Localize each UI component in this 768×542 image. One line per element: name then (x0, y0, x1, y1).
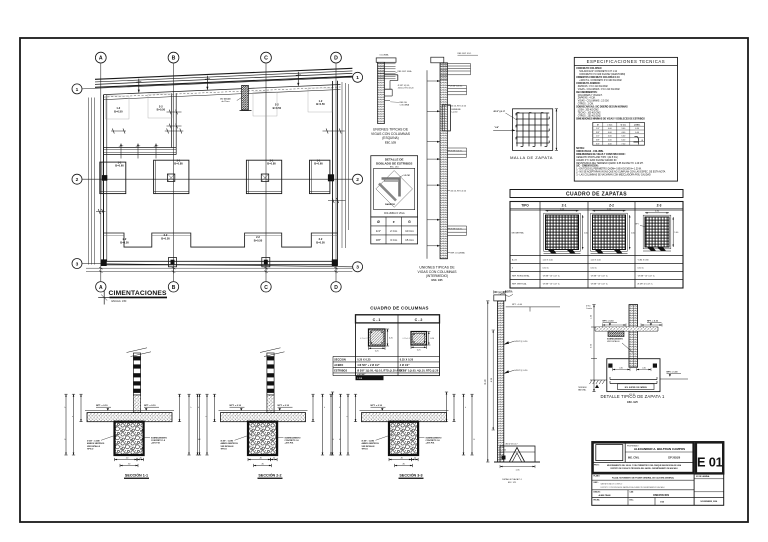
svg-text:VER DETALLE: VER DETALLE (362, 445, 376, 448)
interior L wall horizontal segment (104, 147, 177, 149)
svg-text:DIAMETRO: DIAMETRO (385, 203, 396, 206)
grid bubble C top (261, 52, 272, 63)
svg-text:A x B: A x B (512, 259, 517, 262)
dimension ticks mid bay B (165, 130, 184, 132)
tall column leader 2 (504, 370, 515, 374)
svg-text:5/8": 5/8" (596, 140, 600, 142)
svg-text:1.00 X 1.00: 1.00 X 1.00 (591, 260, 602, 262)
footing box anchors (608, 364, 612, 368)
tall column detail top cap (494, 295, 506, 301)
svg-text:PLAZA: MOVIMIENTO DE PODER GEN: PLAZA: MOVIMIENTO DE PODER GENERAL DE CU… (612, 476, 675, 479)
svg-text:1/4": 1/4" (376, 229, 381, 233)
svg-text:"L/8": "L/8" (494, 127, 499, 129)
svg-text:A.BELTRAN: A.BELTRAN (599, 494, 611, 497)
svg-text:SANTA ROSA DE COISHCO: SANTA ROSA DE COISHCO (601, 483, 623, 486)
beam direction arrows on roof band (138, 79, 140, 93)
tall column base line (494, 461, 540, 463)
svg-text:"Ø 3/8" "@" 0.17 m.: "Ø 3/8" "@" 0.17 m. (591, 276, 609, 278)
svg-text:UBIC.:: UBIC.: (594, 482, 600, 484)
grid row 2 line (82, 178, 352, 180)
tall column footing (500, 446, 535, 462)
svg-text:0.45: 0.45 (619, 367, 623, 369)
column C-2 section (411, 332, 427, 346)
column shaft of SECCIÓN 2-2 (267, 353, 274, 395)
svg-text:AMBOS SENTIDOS: AMBOS SENTIDOS (87, 442, 105, 445)
intermediate joint right leader notes (448, 85, 451, 87)
svg-text:NPT. + 6.00: NPT. + 6.00 (512, 304, 522, 306)
svg-text:UNION VIGAS - COLUMN.: UNION VIGAS - COLUMN. (576, 150, 604, 153)
svg-text:DIMENSIONES DE VIGAS Y CON: DIMENSIONES DE VIGAS Y CONSTRUCCION : (576, 153, 626, 156)
svg-text:3 Cm: 3 Cm (390, 238, 398, 242)
svg-text:VIGAS - COLUMNAS: VIGAS - COLUMNAS : 2.5 CM. (578, 100, 610, 103)
svg-text:B=0.50: B=0.50 (316, 240, 325, 244)
intermediate joint top beam (448, 63, 471, 65)
svg-text:DIBUJO:: DIBUJO: (594, 491, 601, 493)
svg-text:0.45: 0.45 (642, 367, 646, 369)
footing mesh right dimension (555, 109, 557, 151)
svg-text:"Ø 3/8" "@" 0.17 m.: "Ø 3/8" "@" 0.17 m. (543, 284, 561, 286)
svg-text:2.- NO SE ACEPTARAN VIGAS QUE: 2.- NO SE ACEPTARAN VIGAS QUE NO CUMPLAN… (576, 171, 666, 174)
svg-text:DOBLADO DE ESTRIBOS: DOBLADO DE ESTRIBOS (376, 161, 412, 165)
svg-text:Cuadro: Cuadro (586, 308, 592, 310)
svg-text:FECHA:: FECHA: (594, 498, 601, 501)
svg-text:e: e (347, 416, 348, 418)
svg-text:+25% P.M.: +25% P.M. (285, 443, 295, 445)
svg-text:.40: .40 (126, 457, 129, 459)
svg-text:e: e (206, 416, 207, 418)
svg-text:h: h (198, 407, 199, 409)
svg-text:TIPICO: TIPICO (87, 449, 94, 451)
svg-text:10 Cm: 10 Cm (405, 229, 414, 233)
zapata detail left dimension (593, 305, 595, 392)
svg-text:.80: .80 (402, 463, 405, 465)
svg-text:.40: .40 (273, 457, 276, 459)
svg-text:SOBRECIMIENTO: SOBRECIMIENTO (151, 437, 167, 439)
svg-text:MEJORAMIENTO DEL SS.HH. Y DEL: MEJORAMIENTO DEL SS.HH. Y DEL PERIMETRIC… (607, 464, 682, 467)
svg-text:3/8": 3/8" (376, 238, 381, 242)
svg-text:CUADRO DE COLUMNAS: CUADRO DE COLUMNAS (370, 305, 429, 310)
top footing outline B1 (148, 94, 172, 118)
svg-text:0.50 m.: 0.50 m. (543, 268, 550, 270)
top footing outline D1 (308, 88, 332, 112)
north cross mark (103, 291, 105, 305)
svg-text:ZAPATAS :: ZAPATAS : F'C= 210 KG/CM2 (578, 85, 609, 88)
svg-text:CEMENTO PORTLAND TIPO I (42.5: CEMENTO PORTLAND TIPO I (42.5 KG) (576, 156, 618, 159)
svg-text:2-2: 2-2 (256, 235, 260, 239)
stirrup bending detail box (371, 156, 418, 217)
svg-text:h: h (324, 407, 325, 409)
svg-text:0.25: 0.25 (389, 338, 393, 340)
svg-text:C: C (264, 285, 268, 291)
grid bubble D top (331, 52, 342, 63)
left wall double line (103, 95, 105, 266)
pedestal of SECCIÓN 1-1 (115, 422, 144, 455)
zapata detail footing box (607, 359, 660, 392)
hook sketch in table (634, 136, 639, 144)
floor line of SECCIÓN 2-2 (219, 410, 308, 412)
ticks on interior wall vertical (167, 111, 182, 113)
svg-text:Ø 3/8" 1@.05,: Ø 3/8" 1@.05, (450, 228, 462, 230)
svg-text:Z-3: Z-3 (657, 203, 662, 207)
svg-text:1 1/2: 1 1/2 (357, 378, 363, 380)
svg-text:15 Cm: 15 Cm (405, 238, 414, 242)
svg-text:3: 3 (356, 265, 359, 271)
lamina column (693, 474, 695, 505)
bottom dimension line 2 (86, 271, 352, 273)
svg-text:C: C (264, 56, 268, 62)
grid bubble 1 left (72, 84, 82, 94)
footing Z-1 at B2 (154, 160, 189, 193)
svg-text:NPT. = 0.10: NPT. = 0.10 (144, 405, 156, 407)
foundation plan grid line D (335, 63, 337, 281)
svg-text:(ESQUINA): (ESQUINA) (382, 136, 398, 140)
svg-text:0.20: 0.20 (430, 338, 434, 340)
svg-text:CUADRO DE ZAPATAS: CUADRO DE ZAPATAS (566, 192, 627, 198)
bottom wall double line (104, 260, 338, 262)
svg-text:ING. CIVIL: ING. CIVIL (628, 458, 640, 460)
svg-text:.40: .40 (400, 457, 403, 459)
stepped strip footing outline (104, 233, 338, 247)
svg-text:COLUMNAS Y VIGAS P.: COLUMNAS Y VIGAS P. (578, 94, 603, 97)
sheet code box E 01 (696, 442, 723, 473)
svg-text:OTROS: OTROS : 250 KG/CM2 (578, 115, 602, 117)
svg-text:Ø 3/8" : 0.20M: Ø 3/8" : 0.20M (362, 441, 375, 443)
left dimension lines of SECCIÓN 1-1 (65, 394, 67, 455)
grid bubble C bottom (261, 282, 271, 292)
svg-text:CIMENTACIONES: CIMENTACIONES (109, 290, 168, 297)
column schedule data rows (333, 355, 440, 357)
svg-text:CONCRETO 1:8: CONCRETO 1:8 (151, 440, 165, 442)
svg-text:D: D (334, 56, 338, 62)
svg-text:Ø 3/8" : 0.20M: Ø 3/8" : 0.20M (87, 441, 100, 443)
left dimension lines of SECCIÓN 3-3 (340, 394, 342, 455)
title block top band (thick) (593, 442, 694, 473)
foundation plan grid line C (265, 63, 267, 281)
svg-text:DISTRITO Y PROVINCIA DE SANTA: DISTRITO Y PROVINCIA DE SANTA ROSA CHIMB… (601, 486, 666, 489)
footing mesh detail frame (513, 109, 553, 151)
top wall edge lines (104, 84, 341, 94)
tall column inner dimension (492, 330, 494, 430)
intermediate joint right beam stubs (448, 85, 467, 87)
bottom dimensions of SECCIÓN 3-3 (389, 459, 412, 461)
svg-text:ESC. 1/25: ESC. 1/25 (385, 141, 397, 144)
svg-text:1/4": 1/4" (596, 128, 600, 130)
svg-text:0.25: 0.25 (417, 349, 421, 351)
right dimension lines of SECCIÓN 1-1 (179, 394, 181, 422)
svg-text:ACERO F'Y= 4200 KG/CM2 GRADO 6: ACERO F'Y= 4200 KG/CM2 GRADO 60 (576, 159, 617, 162)
svg-text:GEOMETRIA: GEOMETRIA (512, 232, 525, 235)
svg-text:2 Cm: 2 Cm (390, 229, 398, 233)
svg-text:"Ø 3/8" "@" 0.17 m.: "Ø 3/8" "@" 0.17 m. (591, 284, 609, 286)
svg-text:4@.10, RTO.@.20: 4@.10, RTO.@.20 (398, 88, 414, 90)
svg-text:PROY.:: PROY.: (594, 464, 600, 466)
svg-text:NPT. = 0.10: NPT. = 0.10 (371, 405, 383, 407)
footing Z-1 at D2 (310, 160, 330, 193)
svg-text:CONCRETO ARMADO:: CONCRETO ARMADO: (576, 82, 600, 85)
bottom dimension line 1 (86, 267, 352, 269)
title block outer frame (592, 442, 724, 506)
ticks on interior wall (120, 144, 122, 159)
right dimension lines of SECCIÓN 3-3 (453, 394, 455, 422)
footing Z-1 at C2 (246, 160, 281, 193)
stirrup bending inner frame (374, 168, 415, 209)
svg-text:Z-1: Z-1 (562, 203, 567, 207)
intermediate joint column (431, 57, 444, 63)
grid row 1 line (sloped) (82, 77, 352, 89)
intermediate joint left beam ticks (427, 80, 440, 82)
svg-text:C - 2: C - 2 (415, 318, 423, 322)
column C-1 section (369, 329, 386, 346)
svg-text:0.25 X 0.25: 0.25 X 0.25 (357, 358, 371, 361)
svg-text:VER DETALLE: VER DETALLE (87, 445, 101, 448)
svg-text:AMBOS SENTIDOS: AMBOS SENTIDOS (362, 442, 380, 445)
svg-text:CONCRETO 1:8: CONCRETO 1:8 (426, 440, 440, 442)
svg-text:NOTAS:: NOTAS: (576, 147, 585, 150)
svg-text:DETALLE PLACA P-1: DETALLE PLACA P-1 (502, 478, 522, 481)
svg-text:ESC.:: ESC.: (630, 499, 635, 501)
svg-text:REF. SUP. VIGA: REF. SUP. VIGA (398, 70, 413, 73)
svg-text:ESPECIFICACIONES TECNICAS: ESPECIFICACIONES TECNICAS (587, 59, 666, 64)
column schedule table (356, 315, 440, 376)
svg-text:C - 1: C - 1 (373, 318, 381, 322)
svg-text:SECCIÓN 2-2: SECCIÓN 2-2 (258, 472, 281, 477)
grid bubble B top (168, 52, 179, 63)
pedestal of SECCIÓN 2-2 (248, 422, 277, 455)
zapata detail column (629, 305, 638, 368)
svg-text:B=0.60: B=0.60 (115, 164, 124, 168)
svg-text:CIMENTACION: CIMENTACION (653, 494, 669, 497)
svg-text:ESC. 1/25: ESC. 1/25 (508, 482, 516, 484)
svg-text:4@.10, RTO.@.20: 4@.10, RTO.@.20 (450, 105, 466, 107)
interior L wall vertical segment (171, 93, 173, 147)
svg-text:e Cm: e Cm (607, 124, 612, 126)
svg-text:REF. SUP. V.S.1: REF. SUP. V.S.1 (458, 53, 472, 55)
svg-text:h: h (191, 407, 192, 409)
tall column shaft (498, 301, 504, 462)
svg-text:*0.80 X 0.80: *0.80 X 0.80 (638, 260, 650, 262)
grid bubble 2 left (72, 174, 82, 184)
grid bubble A top (95, 52, 106, 63)
grid bubble 3 right (353, 262, 363, 272)
svg-text:AMBOS SENTIDOS: AMBOS SENTIDOS (221, 442, 239, 445)
svg-text:RESISTENCIA DEL TERRENO QADM=: RESISTENCIA DEL TERRENO QADM= 0.85 KG/CM… (576, 162, 644, 165)
svg-text:SOBRECIMIENTO: SOBRECIMIENTO (426, 437, 442, 439)
zapata detail slab (595, 326, 658, 328)
column below stripes SECCIÓN 2-2 (267, 395, 274, 413)
grid bubble 3 left (72, 259, 82, 269)
svg-text:3/4": 3/4" (596, 143, 600, 145)
ground hatch left (590, 380, 593, 384)
svg-text:NPT.: NPT. (635, 224, 639, 226)
svg-text:TIPICO: TIPICO (221, 449, 228, 451)
svg-text:RECUBRIMIENTOS:: RECUBRIMIENTOS: (576, 92, 597, 94)
svg-text:NIV. SUPER. DE ZAPATA: NIV. SUPER. DE ZAPATA (625, 386, 648, 389)
svg-text:VIGAS - COLUMNAS : F'C= 210: VIGAS - COLUMNAS : F'C= 210 KG/CM2 (578, 88, 621, 91)
footing mesh bars (516, 113, 518, 147)
svg-text:SECCIÓN 3-3: SECCIÓN 3-3 (399, 472, 422, 477)
svg-text:+25% P.M.: +25% P.M. (151, 443, 161, 445)
svg-text:COLUMNA O VIGA: COLUMNA O VIGA (384, 212, 405, 215)
svg-text:B=0.80: B=0.80 (174, 162, 183, 166)
svg-text:NATURAL: NATURAL (578, 389, 586, 392)
svg-text:e: e (393, 220, 395, 224)
slab of SECCIÓN 3-3 (362, 413, 447, 422)
stirrup diamond (376, 171, 413, 208)
title block row 3 (592, 473, 724, 475)
svg-text:CONCRETO F'C=100 KG/CM2 (CEM-H: CONCRETO F'C=100 KG/CM2 (CEM-HORM) (579, 74, 625, 76)
svg-text:B=0.50: B=0.50 (316, 102, 325, 106)
svg-text:.40: .40 (259, 457, 262, 459)
dimension ticks mid bay AB (111, 130, 126, 132)
svg-text:+25% P.M.: +25% P.M. (426, 443, 436, 445)
grid bubble D bottom (331, 282, 341, 292)
svg-text:h: h (339, 407, 340, 409)
svg-text:B=0.50: B=0.50 (157, 108, 166, 112)
top footing outline A1 (106, 96, 129, 119)
svg-text:1.- EN TODO EL PERIMETRO QADM: 1.- EN TODO EL PERIMETRO QADM= 0.85 KG/C… (576, 168, 642, 171)
svg-text:Ø: Ø (377, 220, 380, 224)
svg-text:NPT. = 0.10: NPT. = 0.10 (278, 405, 290, 407)
svg-text:ZAPATAS: ZAPATAS : 4 CM. (578, 97, 596, 100)
svg-text:(INTERMEDIO): (INTERMEDIO) (426, 274, 448, 278)
footing box bars (610, 379, 657, 381)
svg-text:Ø 3/8" 1@.05,: Ø 3/8" 1@.05, (450, 150, 462, 152)
pedestal of SECCIÓN 3-3 (389, 422, 418, 455)
wall break tick left wall (96, 211, 106, 213)
svg-text:.40: .40 (414, 457, 417, 459)
svg-text:ACERO: ACERO (334, 364, 343, 367)
svg-text:0.25: 0.25 (375, 350, 379, 352)
svg-text:B: B (172, 56, 176, 62)
svg-text:TIPO: TIPO (521, 203, 529, 207)
floor line of SECCIÓN 3-3 (360, 410, 449, 412)
zapata Z-1 drawing (546, 215, 579, 250)
footing rebar peak (510, 448, 525, 462)
svg-text:LONG.: LONG. (634, 124, 641, 126)
svg-text:.40: .40 (139, 457, 142, 459)
svg-text:e: e (72, 416, 73, 418)
svg-text:Ø 3/8" 1@.05, 4@.10, RTO.@.20: Ø 3/8" 1@.05, 4@.10, RTO.@.20 A/EXT. (357, 369, 404, 372)
svg-text:2-2: 2-2 (159, 104, 163, 108)
specifications inner table (593, 122, 645, 145)
grid bubble 2 right (353, 174, 363, 184)
svg-text:NPT. = 0.10: NPT. = 0.10 (603, 321, 615, 323)
footing schedule title bar (510, 190, 683, 198)
svg-text:3.- LAS COLUMNAS SE VACIARAN C: 3.- LAS COLUMNAS SE VACIARAN CON MEZCLAD… (576, 174, 651, 177)
svg-text:B=0.50: B=0.50 (161, 236, 170, 240)
corner joint beam (385, 74, 398, 76)
svg-text:2-2: 2-2 (275, 103, 279, 107)
svg-text:4 Ø 1/2": 4 Ø 1/2" (400, 364, 410, 367)
svg-text:NPT. = 0.10: NPT. = 0.10 (96, 405, 108, 407)
svg-text:.80: .80 (128, 463, 131, 465)
svg-text:1-2: 1-2 (319, 99, 323, 103)
svg-text:SOBRECARGAS: S/C DISEÑO SEG: SOBRECARGAS: S/C DISEÑO SEGUN NORMAS (576, 106, 628, 109)
svg-text:SOBRECIMIENTO: SOBRECIMIENTO (285, 437, 301, 439)
svg-text:1.00 X 1.00: 1.00 X 1.00 (543, 260, 554, 262)
svg-text:h: h (465, 407, 466, 409)
svg-text:LOSA: LOSA : 200 KG/CM2 (578, 109, 600, 112)
svg-text:1: 1 (356, 75, 359, 81)
svg-text:Ø1/2"@0.17: Ø1/2"@0.17 (494, 111, 506, 113)
svg-text:1/2": 1/2" (596, 136, 600, 138)
svg-text:Ø1/2"@ 0.20: Ø1/2"@ 0.20 (515, 341, 528, 343)
svg-text:0.50 m.: 0.50 m. (638, 268, 645, 270)
technical specifications box (574, 57, 677, 181)
project description row (593, 461, 694, 463)
grid bubble B bottom (168, 282, 178, 292)
svg-text:SECCIÓN 1-1: SECCIÓN 1-1 (125, 472, 148, 477)
top footing outline C1 (253, 92, 277, 116)
right footing edge lines (341, 82, 343, 248)
column below stripes SECCIÓN 1-1 (133, 395, 140, 413)
left footing edge lines (88, 98, 90, 265)
svg-text:0.25x0.20: 0.25x0.20 (403, 338, 411, 340)
grid bubble 1 right (353, 72, 363, 82)
svg-text:N° DE LAMINA:: N° DE LAMINA: (696, 475, 710, 478)
svg-text:CIP 201620: CIP 201620 (668, 458, 681, 460)
wall break tick right wall (328, 200, 346, 202)
svg-text:4@.10, RTO.@.20: 4@.10, RTO.@.20 (450, 190, 466, 192)
svg-text:NOTA:: NOTA: (505, 290, 513, 294)
tall column detail top line (506, 306, 560, 308)
svg-text:Ø1/2"@ 0.20: Ø1/2"@ 0.20 (515, 370, 528, 372)
svg-text:2-2: 2-2 (319, 237, 323, 241)
svg-text:G: G (408, 220, 411, 224)
svg-text:CAD:: CAD: (630, 490, 635, 493)
svg-text:1: 1 (76, 87, 79, 93)
svg-text:0.25x0.25: 0.25x0.25 (360, 338, 368, 340)
svg-text:+30% P.G. CONCRETO F'C=100 KG/: +30% P.G. CONCRETO F'C=100 KG/CM2 (579, 80, 622, 82)
grid row 3 line (82, 264, 352, 267)
slab of SECCIÓN 1-1 (87, 413, 172, 422)
svg-text:G Cm: G Cm (621, 124, 627, 126)
svg-text:Z-2: Z-2 (609, 203, 614, 207)
svg-text:4 Ø 5/8" + 2 Ø 1/2": 4 Ø 5/8" + 2 Ø 1/2" (357, 364, 380, 367)
foundation plan grid line B (173, 63, 175, 281)
logo box (596, 445, 623, 461)
svg-text:B=0.50: B=0.50 (114, 110, 123, 114)
svg-text:DISTRITO DE COISHCO PROVINCIA: DISTRITO DE COISHCO PROVINCIA DEL SANTA … (611, 467, 679, 470)
svg-text:L=0.60: L=0.60 (452, 112, 458, 114)
svg-text:REF. COLUMNA: REF. COLUMNA (450, 251, 465, 254)
svg-text:S/C - CIMENTACION :: S/C - CIMENTACION : (576, 165, 599, 168)
right dimension lines of SECCIÓN 2-2 (312, 394, 314, 422)
svg-text:E 01: E 01 (697, 455, 723, 470)
svg-text:B=0.50: B=0.50 (254, 238, 263, 242)
svg-text:.40: .40 (504, 450, 507, 452)
svg-text:NPT. = 0.10: NPT. = 0.10 (647, 321, 659, 323)
svg-text:2-2: 2-2 (123, 237, 127, 241)
svg-text:Ø 3/8" 1@.05, 4@.10, RTO.@.20: Ø 3/8" 1@.05, 4@.10, RTO.@.20 (400, 369, 439, 372)
svg-text:CONCRETO CICLOPEO:: CONCRETO CICLOPEO: (576, 68, 602, 70)
svg-text:SOLADO E=4" CONCRETO C:H: SOLADO E=4" CONCRETO C:H 1:12 (579, 70, 618, 73)
svg-text:SECCION: SECCION (334, 358, 346, 361)
svg-text:TIPICO: TIPICO (362, 449, 369, 451)
svg-text:4 Ø 5/8": 4 Ø 5/8" (357, 373, 365, 376)
svg-text:"Ø 3/8" "@" 0.17 m.: "Ø 3/8" "@" 0.17 m. (543, 276, 561, 278)
svg-text:B: B (172, 285, 176, 291)
svg-text:VER DETALLE: VER DETALLE (221, 445, 235, 448)
svg-text:NOVIEMBRE_2024: NOVIEMBRE_2024 (701, 500, 719, 503)
svg-text:MALLA DE ZAPATA: MALLA DE ZAPATA (510, 155, 553, 160)
column marks on bottom wall (101, 259, 107, 266)
hatched wall pier (242, 85, 249, 110)
svg-text:2: 2 (356, 177, 359, 183)
svg-text:DETALLE TIPICO DE ZAPATA 1: DETALLE TIPICO DE ZAPATA 1 (600, 394, 665, 399)
column shaft of SECCIÓN 1-1 (133, 353, 140, 395)
break mark of SECCIÓN 2-2 (260, 348, 281, 353)
